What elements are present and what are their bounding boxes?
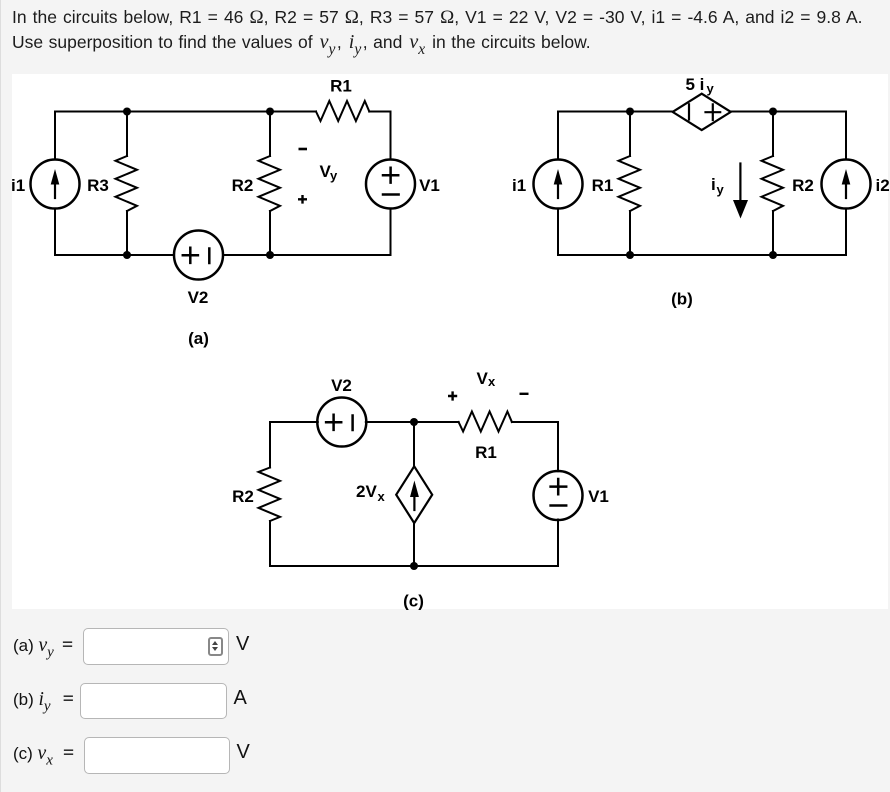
wire: c mid lower	[413, 523, 415, 566]
label Vy minus	[299, 148, 308, 151]
current source i1 (b)	[534, 160, 583, 209]
svg-text:V2: V2	[188, 288, 209, 307]
node H b bottom-right	[769, 251, 777, 259]
svg-text:i: i	[711, 175, 716, 194]
svg-text:R1: R1	[330, 77, 352, 96]
problem statement	[12, 5, 888, 62]
node A top-left	[123, 108, 131, 116]
wire: a right upper	[390, 112, 392, 160]
iy current arrow	[739, 164, 741, 203]
svg-text:(c): (c)	[403, 592, 424, 611]
node J c bottom-mid	[410, 562, 418, 570]
resistor R1 (b)	[629, 112, 631, 157]
svg-text:R3: R3	[87, 176, 109, 195]
voltage source V2 (c)	[317, 398, 366, 447]
voltage source V2	[174, 231, 223, 280]
svg-text:i1: i1	[11, 176, 25, 195]
svg-text:V: V	[477, 369, 489, 388]
wire: b top-left	[558, 111, 673, 113]
wire: b right upper	[845, 112, 847, 160]
svg-text:5 i: 5 i	[686, 75, 705, 94]
wire: c top-mid	[366, 421, 459, 423]
svg-text:(b): (b)	[671, 290, 693, 309]
voltage source V1	[366, 160, 415, 209]
label Vx plus	[448, 391, 457, 400]
resistor R1	[316, 101, 369, 121]
resistor R3	[126, 112, 128, 157]
wire: c right lower	[557, 520, 559, 567]
svg-text:y: y	[717, 182, 725, 197]
wire: a left upper	[54, 112, 56, 160]
current source i2	[822, 160, 871, 209]
svg-text:V1: V1	[419, 176, 440, 195]
wire: a right lower	[390, 209, 392, 256]
svg-text:V1: V1	[588, 487, 609, 506]
node F b top-right	[769, 108, 777, 116]
svg-text:i2: i2	[876, 176, 890, 195]
resistor R2 (c)	[269, 422, 271, 468]
wire: b left lower	[557, 209, 559, 256]
svg-text:x: x	[488, 374, 496, 389]
wire: a bottom-right	[223, 254, 391, 256]
label Vx minus	[520, 393, 529, 395]
answer row (a)	[13, 634, 73, 662]
wire: b bottom	[558, 254, 846, 256]
wire: a left lower	[54, 209, 56, 256]
svg-text:x: x	[378, 489, 386, 504]
node G b bottom-left	[626, 251, 634, 259]
svg-text:R1: R1	[592, 176, 614, 195]
node C bottom-left	[123, 251, 131, 259]
node D bottom-mid	[266, 251, 274, 259]
resistor R2 (b)	[772, 112, 774, 157]
white circuit panel	[12, 74, 888, 609]
wire: b left upper	[557, 112, 559, 160]
label Vy plus	[298, 195, 307, 204]
wire: c right upper	[557, 422, 559, 471]
node E b top-left	[626, 108, 634, 116]
svg-text:(a): (a)	[188, 329, 209, 348]
wire: a top-left	[55, 111, 316, 113]
svg-text:y: y	[330, 168, 338, 183]
wire: c top-right	[512, 421, 558, 423]
node I c top-mid	[410, 418, 418, 426]
dependent source 2Vx diamond	[396, 466, 432, 523]
svg-text:R2: R2	[232, 176, 254, 195]
resistor R2	[269, 112, 271, 157]
wire: b right lower	[845, 209, 847, 256]
voltage source V1 (c)	[534, 471, 583, 520]
wire: c mid upper	[413, 422, 415, 466]
wire: c left lower	[269, 521, 271, 566]
svg-text:V2: V2	[331, 376, 352, 395]
wire: c top-left	[270, 421, 318, 423]
wire: c bottom	[270, 565, 558, 567]
svg-text:R2: R2	[232, 487, 254, 506]
svg-text:R1: R1	[475, 443, 497, 462]
wire: a bottom-left	[55, 254, 174, 256]
wire: b top-right	[731, 111, 846, 113]
svg-text:R2: R2	[792, 176, 814, 195]
answer row (b)	[13, 688, 74, 716]
node B top-mid	[266, 108, 274, 116]
dependent source 5iy diamond	[673, 94, 731, 130]
svg-text:2V: 2V	[356, 482, 377, 501]
svg-text:y: y	[707, 81, 715, 96]
wire: a top-right	[369, 111, 390, 113]
current source i1	[31, 160, 80, 209]
svg-text:i1: i1	[512, 176, 526, 195]
resistor R1 (c)	[459, 412, 512, 432]
left page edge	[0, 0, 1, 792]
answer row (c)	[13, 742, 74, 770]
